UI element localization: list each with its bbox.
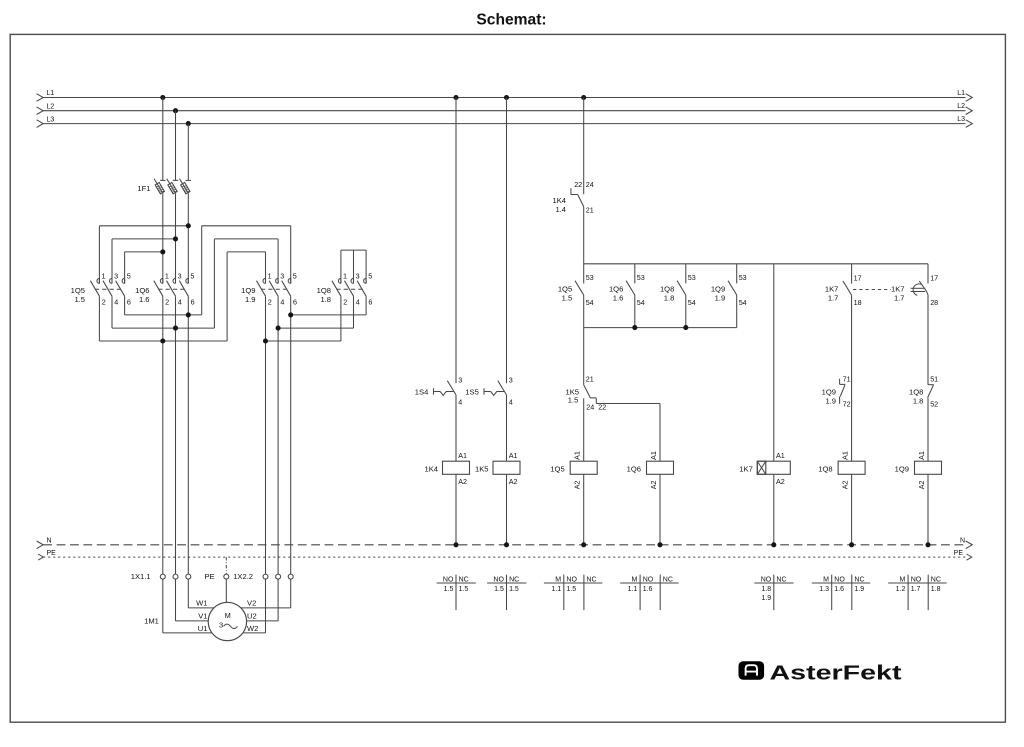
svg-text:A2: A2: [649, 481, 658, 490]
auxiliary contact 1Q8 53/54: [660, 264, 696, 328]
svg-text:1Q9: 1Q9: [241, 286, 255, 295]
svg-text:L2: L2: [957, 103, 965, 110]
svg-text:1: 1: [165, 271, 169, 280]
junction 1Q8.54: [683, 325, 688, 330]
logo AsterFekt: [739, 661, 902, 684]
svg-text:A1: A1: [509, 451, 518, 460]
junction 1K5/N: [504, 542, 509, 547]
svg-text:1K4: 1K4: [552, 196, 566, 205]
svg-text:5: 5: [190, 271, 194, 280]
svg-text:M: M: [823, 577, 829, 584]
svg-text:2: 2: [268, 298, 272, 307]
wire 1S4 to coil 1K4: [455, 395, 457, 461]
cross-reference table 1Q5: [544, 575, 602, 610]
wire L1 phase vertical (fuse 1F1.1 to motor U1): [162, 98, 164, 575]
wire coil 1Q9 A2 to N: [927, 474, 929, 545]
svg-text:1.8: 1.8: [664, 294, 675, 303]
wire L2 phase vertical (fuse 1F1.2 to motor V1): [175, 111, 177, 574]
svg-text:1Q6: 1Q6: [135, 286, 149, 295]
svg-text:L1: L1: [47, 90, 55, 97]
svg-text:21: 21: [586, 375, 594, 384]
svg-text:L3: L3: [47, 116, 55, 123]
svg-text:4: 4: [178, 298, 182, 307]
junction L1/1S4 rail: [453, 95, 458, 100]
wire motor W2 to terminal: [243, 579, 266, 633]
svg-text:72: 72: [843, 400, 851, 409]
svg-text:53: 53: [739, 273, 747, 282]
svg-text:A2: A2: [917, 481, 926, 490]
svg-text:1.9: 1.9: [761, 595, 771, 602]
wire terminal to motor U1: [163, 579, 213, 633]
svg-text:1.7: 1.7: [894, 294, 905, 303]
svg-text:2: 2: [102, 298, 106, 307]
contact 1K5 changeover 21-24-22: [565, 375, 606, 412]
svg-text:1S4: 1S4: [415, 387, 429, 396]
svg-text:24: 24: [586, 403, 594, 412]
wire L1 to contact 1K4: [583, 98, 585, 195]
wire L3 phase vertical (fuse 1F1.3 to motor W1): [187, 124, 189, 574]
svg-text:1.4: 1.4: [555, 205, 566, 214]
svg-text:L3: L3: [957, 116, 965, 123]
net N bus (dashed): [37, 537, 973, 548]
svg-text:M: M: [225, 611, 231, 620]
junction L1/fuse feed: [160, 95, 165, 100]
auxiliary contact 1Q9 53/54: [711, 264, 747, 328]
wire 1Q5.4/L2 node to 1Q9 pin3: [214, 239, 278, 328]
svg-text:1K7: 1K7: [891, 285, 905, 294]
junction L2/fuse feed: [173, 108, 178, 113]
svg-text:A2: A2: [776, 477, 785, 486]
wire 1K5.22 to coil 1Q6: [596, 404, 660, 462]
wire 1Q5.6/L3 node to 1Q9 pin5: [202, 226, 291, 315]
wire terminal to motor V1: [176, 579, 209, 621]
coil 1Q5: [550, 451, 597, 489]
svg-text:NO: NO: [911, 577, 922, 584]
junction L2/lower loop: [173, 326, 178, 331]
svg-text:1.7: 1.7: [828, 294, 839, 303]
junction 1Q9/N: [925, 542, 930, 547]
svg-text:1.1: 1.1: [551, 586, 561, 593]
cross-reference table 1Q9: [888, 575, 946, 610]
junction L3/fuse feed: [186, 121, 191, 126]
svg-text:NO: NO: [643, 577, 654, 584]
wire coil 1Q5 A2 to N: [583, 474, 585, 545]
wire control top bus: [584, 263, 928, 265]
svg-text:1.8: 1.8: [320, 295, 331, 304]
svg-text:N: N: [47, 537, 52, 544]
svg-text:1: 1: [343, 271, 347, 280]
wire coil 1K4 A2 to N: [455, 474, 457, 545]
wire L1 to switch 1S5: [506, 98, 508, 384]
svg-text:6: 6: [368, 298, 372, 307]
wire 54-terminals bus: [584, 327, 737, 329]
svg-text:6: 6: [293, 298, 297, 307]
wire top bus to coil 1K7: [773, 264, 775, 461]
wire L1 to switch 1S4: [455, 98, 457, 384]
svg-text:5: 5: [368, 271, 372, 280]
coil 1K7 (timer relay): [739, 451, 790, 486]
coil 1K5: [475, 451, 520, 486]
svg-text:1.5: 1.5: [74, 295, 85, 304]
junction L1/1K4-contact rail: [581, 95, 586, 100]
svg-text:2: 2: [343, 298, 347, 307]
svg-text:1Q6: 1Q6: [627, 464, 641, 473]
wire 1Q9 pin6 down to motor V2: [290, 296, 292, 574]
junction 1Q6.54: [632, 325, 637, 330]
svg-text:1: 1: [268, 271, 272, 280]
svg-text:3: 3: [458, 375, 462, 384]
svg-text:1Q9: 1Q9: [822, 388, 836, 397]
svg-text:AsterFekt: AsterFekt: [770, 662, 902, 685]
svg-text:NO: NO: [493, 577, 504, 584]
wire 1Q9.4 to 1Q8.4: [278, 296, 353, 328]
svg-text:1M1: 1M1: [144, 616, 159, 625]
svg-text:3: 3: [219, 620, 223, 629]
coil 1Q8: [818, 451, 865, 489]
svg-text:1.9: 1.9: [245, 295, 256, 304]
svg-text:1.5: 1.5: [566, 586, 576, 593]
svg-text:52: 52: [930, 400, 938, 409]
wire 1S5 to coil 1K5: [506, 395, 508, 461]
svg-text:1.6: 1.6: [643, 586, 653, 593]
wire L2 tap to 1Q5 pin3: [112, 239, 176, 284]
svg-text:NC: NC: [587, 577, 597, 584]
svg-text:1.3: 1.3: [819, 586, 829, 593]
svg-text:1.6: 1.6: [613, 294, 624, 303]
contactor 1Q6 power contacts (pins 1-6): [135, 271, 194, 306]
svg-text:6: 6: [191, 298, 195, 307]
svg-text:1Q5: 1Q5: [550, 464, 564, 473]
svg-text:3: 3: [280, 271, 284, 280]
cross-reference table 1K7: [754, 575, 793, 610]
svg-text:1.6: 1.6: [834, 586, 844, 593]
svg-text:V1: V1: [198, 612, 207, 621]
svg-text:A1: A1: [573, 451, 582, 460]
svg-text:53: 53: [637, 273, 645, 282]
timer contact 1K7 17/28 (delayed): [891, 264, 938, 307]
wire PE terminal to motor: [225, 579, 227, 602]
svg-text:1K7: 1K7: [739, 464, 753, 473]
svg-text:1.5: 1.5: [444, 586, 454, 593]
svg-text:A2: A2: [458, 477, 467, 486]
svg-text:1X2.2: 1X2.2: [233, 572, 253, 581]
wire timer contact to contact 1Q8 51/52: [927, 295, 929, 385]
svg-text:L1: L1: [957, 90, 965, 97]
junction L1/1S5 rail: [504, 95, 509, 100]
wire 1Q8.52 to coil 1Q9: [927, 398, 929, 462]
wire terminal to motor W1: [188, 579, 214, 608]
svg-text:1K4: 1K4: [424, 464, 438, 473]
junction L2/1Q5.3: [173, 236, 178, 241]
svg-text:1.6: 1.6: [139, 295, 150, 304]
svg-text:W1: W1: [196, 599, 207, 608]
svg-text:U1: U1: [198, 624, 208, 633]
svg-text:NC: NC: [663, 577, 673, 584]
svg-text:3: 3: [509, 375, 513, 384]
terminal strip 1X2.2: [233, 572, 293, 581]
svg-text:1.5: 1.5: [562, 294, 573, 303]
junction 1Q6/N: [657, 542, 662, 547]
svg-text:A1: A1: [840, 451, 849, 460]
svg-text:NO: NO: [834, 577, 845, 584]
svg-text:1.9: 1.9: [715, 294, 726, 303]
fuse-switch 1F1: [137, 179, 191, 194]
coil 1Q9: [895, 451, 942, 489]
svg-text:54: 54: [688, 298, 696, 307]
cross-reference table 1K5: [487, 575, 526, 610]
svg-text:1.8: 1.8: [761, 586, 771, 593]
svg-text:A1: A1: [649, 451, 658, 460]
svg-text:54: 54: [739, 298, 747, 307]
svg-text:NO: NO: [443, 577, 454, 584]
svg-text:1.8: 1.8: [931, 586, 941, 593]
wire 1Q9.2 to 1Q8.2: [266, 296, 341, 341]
svg-text:A1: A1: [458, 451, 467, 460]
motor 1M1 (M 3~): [144, 599, 258, 641]
terminal strip 1X1.1: [131, 572, 191, 581]
svg-text:1.5: 1.5: [459, 586, 469, 593]
svg-text:1: 1: [102, 271, 106, 280]
svg-text:M: M: [555, 577, 561, 584]
svg-text:M: M: [900, 577, 906, 584]
svg-text:A2: A2: [840, 481, 849, 490]
svg-text:N: N: [960, 537, 965, 544]
coil 1K4: [424, 451, 469, 486]
svg-text:A1: A1: [776, 451, 785, 460]
cross-reference table 1Q8: [812, 575, 870, 610]
auxiliary contact 1Q5 53/54: [558, 264, 594, 328]
svg-text:W2: W2: [247, 624, 258, 633]
svg-text:1Q8: 1Q8: [317, 286, 331, 295]
svg-text:NC: NC: [931, 577, 941, 584]
junction L1/lower loop: [160, 338, 165, 343]
svg-text:A1: A1: [917, 451, 926, 460]
coil 1Q6: [627, 451, 674, 489]
junction L3/1Q5.1: [186, 223, 191, 228]
wire L3 tap to 1Q5 pin1: [99, 226, 188, 284]
svg-text:1K5: 1K5: [475, 464, 489, 473]
auxiliary contact 1Q6 53/54: [609, 264, 645, 328]
svg-text:18: 18: [854, 298, 862, 307]
pushbutton switch 1S4: [415, 375, 462, 406]
svg-text:2: 2: [165, 298, 169, 307]
svg-text:17: 17: [930, 273, 938, 282]
svg-text:1.8: 1.8: [913, 397, 924, 406]
svg-text:1.5: 1.5: [568, 396, 579, 405]
svg-text:A2: A2: [509, 477, 518, 486]
auxiliary contact 1K7 17/18: [825, 264, 891, 307]
junction 1Q8/N: [849, 542, 854, 547]
wire 54-bus to contact 1K5: [583, 328, 585, 385]
wire 1Q5 pin4 to loop (via L2 junction): [112, 296, 214, 328]
svg-text:1Q8: 1Q8: [660, 285, 674, 294]
svg-text:1Q5: 1Q5: [71, 286, 85, 295]
wire coil 1Q8 A2 to N: [851, 474, 853, 545]
svg-text:1.1: 1.1: [628, 586, 638, 593]
svg-text:1Q8: 1Q8: [818, 464, 832, 473]
terminal PE: [204, 557, 228, 581]
svg-text:1Q9: 1Q9: [711, 285, 725, 294]
svg-text:4: 4: [280, 298, 284, 307]
svg-text:3: 3: [356, 271, 360, 280]
contactor 1Q8 power contacts (pins 1-6): [317, 271, 373, 306]
svg-text:6: 6: [127, 298, 131, 307]
svg-text:Schemat:: Schemat:: [476, 12, 546, 29]
junction L1/1Q5.5: [160, 249, 165, 254]
svg-text:M: M: [632, 577, 638, 584]
wire 1K5.24 to coil 1Q5: [583, 398, 585, 461]
svg-text:22: 22: [574, 180, 582, 189]
svg-text:U2: U2: [247, 612, 257, 621]
wire 1Q5.2/L1 node to 1Q9 pin1: [227, 252, 265, 341]
svg-text:51: 51: [930, 374, 938, 383]
wire coil 1K7 A2 to N: [773, 474, 775, 545]
svg-text:1Q9: 1Q9: [895, 464, 909, 473]
auxiliary contact 1Q9 71/72 (NC): [822, 374, 851, 408]
svg-text:A2: A2: [573, 481, 582, 490]
wire 1K4.21 to control top bus: [583, 207, 585, 264]
svg-text:53: 53: [688, 273, 696, 282]
junction 1Q9.4: [276, 326, 281, 331]
svg-text:PE: PE: [954, 550, 964, 557]
svg-text:1Q6: 1Q6: [609, 285, 623, 294]
net L1 bus: [37, 90, 973, 101]
svg-text:NC: NC: [459, 577, 469, 584]
svg-text:54: 54: [586, 298, 594, 307]
svg-text:1Q5: 1Q5: [558, 285, 572, 294]
junction 1K7/N: [771, 542, 776, 547]
svg-text:21: 21: [586, 205, 594, 214]
svg-text:NC: NC: [776, 577, 786, 584]
wire 1Q9.6 to 1Q8.6: [291, 296, 366, 315]
junction 1K4/N: [453, 542, 458, 547]
wire 1K7.18 down to coil 1Q8: [851, 295, 853, 461]
svg-text:1F1: 1F1: [137, 184, 150, 193]
svg-text:1Q8: 1Q8: [909, 388, 923, 397]
svg-text:4: 4: [356, 298, 360, 307]
junction 1Q5/N: [581, 542, 586, 547]
svg-text:4: 4: [509, 397, 513, 406]
svg-text:4: 4: [114, 298, 118, 307]
svg-text:V2: V2: [247, 599, 256, 608]
svg-text:53: 53: [586, 273, 594, 282]
svg-text:1S5: 1S5: [465, 387, 479, 396]
net L3 bus: [37, 116, 973, 127]
wire coil 1K5 A2 to N: [506, 474, 508, 545]
contact 1K4 changeover 22-24-21: [552, 180, 593, 215]
wire 1Q5 pin2 to loop (via L1 junction): [99, 296, 227, 341]
svg-text:PE: PE: [204, 572, 214, 581]
junction 1Q9.6: [288, 312, 293, 317]
wire L1 tap to 1Q5 pin5: [125, 252, 163, 284]
net L2 bus: [37, 103, 973, 114]
junction L3/lower loop: [186, 312, 191, 317]
contactor 1Q5 power contacts (pins 1-6): [71, 271, 131, 306]
svg-text:PE: PE: [47, 550, 57, 557]
wire 1Q9 pin2 down to motor W2: [265, 296, 267, 574]
svg-text:1X1.1: 1X1.1: [131, 572, 151, 581]
net PE bus (dotted): [38, 550, 972, 560]
svg-text:NO: NO: [566, 577, 577, 584]
svg-text:1.7: 1.7: [911, 586, 921, 593]
svg-text:17: 17: [854, 273, 862, 282]
svg-text:24: 24: [586, 180, 594, 189]
svg-text:5: 5: [127, 271, 131, 280]
svg-text:1.2: 1.2: [896, 586, 906, 593]
svg-text:71: 71: [843, 374, 851, 383]
wire coil 1Q6 A2 to N: [659, 474, 661, 545]
pushbutton switch 1S5: [465, 375, 512, 406]
wire motor V2 to terminal: [241, 579, 291, 608]
svg-text:3: 3: [178, 271, 182, 280]
svg-text:54: 54: [637, 298, 645, 307]
junction 1Q9.2: [263, 338, 268, 343]
wire motor U2 to terminal: [247, 579, 279, 621]
wire 1Q5 pin6 to loop (via L3 junction): [125, 296, 202, 315]
svg-text:NC: NC: [509, 577, 519, 584]
svg-text:1K7: 1K7: [825, 285, 839, 294]
wire 1Q8 star-point bridge (pins 1-3-5): [341, 250, 366, 283]
svg-text:5: 5: [293, 271, 297, 280]
svg-text:1.9: 1.9: [825, 397, 836, 406]
svg-text:1.9: 1.9: [854, 586, 864, 593]
svg-text:1.5: 1.5: [494, 586, 504, 593]
svg-text:4: 4: [458, 397, 462, 406]
svg-text:NO: NO: [761, 577, 772, 584]
svg-text:NC: NC: [854, 577, 864, 584]
cross-reference table 1Q6: [620, 575, 678, 610]
contactor 1Q9 power contacts (pins 1-6): [241, 271, 297, 306]
svg-text:L2: L2: [47, 103, 55, 110]
svg-text:28: 28: [930, 298, 938, 307]
svg-text:1.5: 1.5: [509, 586, 519, 593]
cross-reference table 1K4: [437, 575, 476, 610]
wire 1Q9 pin4 down to motor U2: [277, 296, 279, 574]
svg-text:3: 3: [114, 271, 118, 280]
auxiliary contact 1Q8 51/52 (NC): [909, 374, 938, 408]
